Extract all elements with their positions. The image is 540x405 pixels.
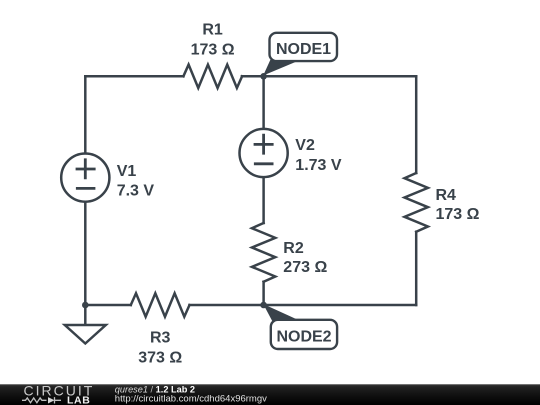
wire mid vertical above V2 (262, 76, 265, 128)
wire left vertical lower (84, 203, 87, 305)
wire bottom-mid horizontal (190, 304, 264, 307)
svg-text:7.3 V: 7.3 V (117, 182, 155, 199)
V2 minus sign (255, 162, 272, 165)
wire mid vertical between V2 and R2 (262, 178, 265, 223)
svg-text:173 Ω: 173 Ω (191, 42, 235, 59)
svg-text:1.73 V: 1.73 V (295, 157, 342, 174)
wire mid vertical below R2 (262, 282, 265, 305)
junction dot ground-R3 (82, 302, 89, 309)
wire right vertical upper (415, 76, 418, 173)
logo resistor squiggle (22, 398, 47, 403)
wire right vertical lower (415, 232, 418, 305)
V2 plus sign (255, 135, 272, 153)
svg-text:R2: R2 (283, 240, 304, 257)
node NODE2 callout box (271, 320, 337, 349)
V1 plus sign (77, 160, 94, 178)
wire bottom-right horizontal (264, 304, 417, 307)
footer bar (0, 384, 540, 405)
resistor R1 (183, 65, 242, 88)
wire left vertical upper (84, 76, 87, 152)
svg-text:R4: R4 (436, 187, 457, 204)
node NODE2 callout pointer (263, 304, 300, 322)
resistor R4 (405, 173, 428, 232)
svg-text:173 Ω: 173 Ω (436, 206, 480, 223)
logo diode symbol (48, 397, 55, 403)
svg-text:V2: V2 (295, 137, 315, 154)
svg-text:273 Ω: 273 Ω (283, 259, 327, 276)
wire top-right horizontal (242, 75, 416, 78)
wire top-left horizontal (85, 75, 183, 78)
svg-text:LAB: LAB (67, 395, 90, 405)
voltage source V1 (61, 154, 109, 202)
resistor R3 (131, 293, 190, 316)
node NODE1 callout box (270, 33, 338, 61)
junction node dot NODE1 (260, 73, 267, 80)
ground symbol (65, 325, 106, 344)
svg-text:http://circuitlab.com/cdhd64x9: http://circuitlab.com/cdhd64x96rmgv (115, 394, 267, 405)
svg-text:R1: R1 (202, 22, 223, 39)
ground stub wire (84, 305, 87, 325)
svg-text:373 Ω: 373 Ω (138, 349, 182, 366)
svg-text:V1: V1 (117, 163, 137, 180)
resistor R2 (252, 223, 275, 282)
junction node dot NODE2 (260, 302, 267, 309)
wire bottom-left horizontal (85, 304, 131, 307)
svg-text:R3: R3 (150, 330, 171, 347)
svg-text:NODE2: NODE2 (276, 328, 331, 345)
node NODE1 callout pointer (263, 60, 299, 76)
V1 minus sign (77, 187, 94, 190)
voltage source V2 (240, 129, 288, 177)
svg-text:NODE1: NODE1 (276, 41, 331, 58)
